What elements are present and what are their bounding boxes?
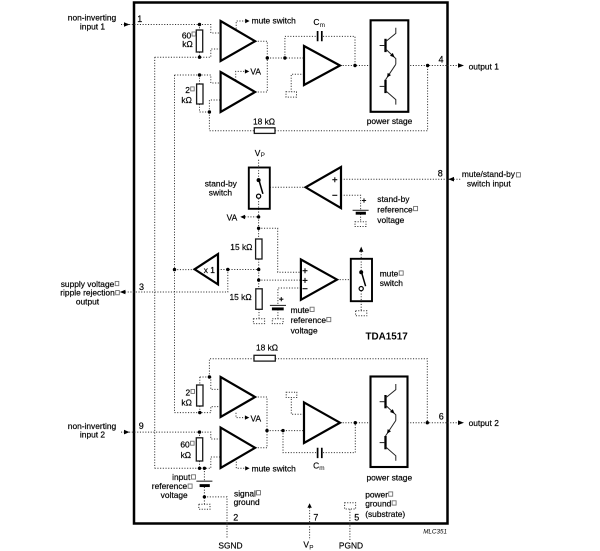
wire stand-by comparator output to switch <box>270 186 306 188</box>
arrow output1 pin4 <box>458 63 464 68</box>
svg-text:7: 7 <box>313 513 318 523</box>
wire U2 output <box>255 58 267 92</box>
glyph box after 2 R2 <box>191 87 195 91</box>
mute switch S2 internals <box>359 259 366 301</box>
op-amp U2 VA amp ch1 <box>221 72 256 112</box>
node VA rail <box>257 215 260 218</box>
svg-text:6: 6 <box>439 411 444 421</box>
wire left rail A <box>154 57 156 468</box>
wire Vp stem to stand-by switch <box>258 160 260 168</box>
wire 60k R1 top lead <box>199 25 201 31</box>
op-amp U4 stand-by comparator <box>306 167 341 208</box>
svg-text:5: 5 <box>354 512 359 522</box>
svg-text:kΩ: kΩ <box>181 450 191 460</box>
stand-by switch S1 box <box>249 168 270 209</box>
wire Cm C1 right branch <box>323 36 355 65</box>
wire signal ground pin2 <box>204 497 227 538</box>
node input reference top <box>203 467 206 470</box>
resistor R4 15k upper <box>256 239 262 259</box>
wire mute switch tick U8 <box>236 462 245 469</box>
svg-text:voltage: voltage <box>161 490 188 500</box>
svg-text:18 kΩ: 18 kΩ <box>256 343 278 353</box>
svg-text:switch: switch <box>380 278 404 288</box>
glyph box after mute switch S2 <box>399 271 403 275</box>
plus minus marks U4 <box>332 177 337 195</box>
svg-text:9: 9 <box>139 421 144 431</box>
svg-text:60: 60 <box>180 440 190 450</box>
op-amp U7 VA amp ch2 <box>221 377 256 417</box>
svg-text:18 kΩ: 18 kΩ <box>253 117 275 127</box>
node divider to comparator <box>257 278 260 281</box>
svg-text:kΩ: kΩ <box>181 398 191 408</box>
node Cm C1 tap <box>283 56 286 59</box>
wire power ground pin5 <box>349 509 351 540</box>
wire stand-by reference battery to ground <box>360 214 362 222</box>
svg-text:TDA1517: TDA1517 <box>366 331 409 342</box>
node x1 output on rail B <box>173 268 176 271</box>
node U3 output <box>353 64 356 67</box>
arrow pin9 <box>124 430 130 435</box>
svg-text:2: 2 <box>186 387 191 397</box>
wire node down to 18k R3 row <box>209 112 254 131</box>
wire divider node to mute comparator second input <box>259 279 301 281</box>
node U1 U2 outputs <box>266 56 269 59</box>
wire pin8 external <box>448 178 460 180</box>
wire 15k R5 bottom to ground <box>258 309 260 319</box>
wire x1 output to rail B <box>175 269 195 271</box>
ground below mute switch <box>356 311 367 316</box>
svg-text:output 1: output 1 <box>469 61 500 71</box>
glyph box after mute reference line2 <box>327 317 331 321</box>
svg-text:2: 2 <box>185 85 190 95</box>
svg-text:input 2: input 2 <box>80 430 105 440</box>
plus minus marks U6 <box>303 268 308 289</box>
wire output1 external <box>448 65 459 67</box>
arrow VA tick U2 <box>245 69 249 73</box>
svg-text:voltage: voltage <box>377 215 404 225</box>
wire VA arrow row <box>245 216 259 218</box>
wire mute comparator output to mute switch <box>337 279 351 281</box>
op-amp U1 mute amp ch1 <box>221 21 256 61</box>
wire Cm C2 left branch <box>283 431 316 453</box>
transistor Q2 PNP power stage 1 <box>380 64 396 104</box>
power stage 2 box <box>371 377 408 468</box>
capacitor C2 Cm ch2 <box>318 448 322 458</box>
svg-text:2: 2 <box>233 512 238 522</box>
svg-text:15 kΩ: 15 kΩ <box>230 242 252 252</box>
svg-text:1: 1 <box>137 14 142 24</box>
wire output2 row <box>340 422 448 424</box>
glyph box after mute/stand-by <box>516 173 520 177</box>
node pin9 junction <box>198 430 201 433</box>
svg-text:8: 8 <box>438 168 443 178</box>
svg-text:P: P <box>309 544 313 551</box>
wire Cm C2 right branch <box>323 423 355 453</box>
node below R7 <box>198 467 201 470</box>
wire 2k R8 top lead <box>199 377 201 385</box>
power ground pin5 pad <box>345 503 356 509</box>
wire 18k R6 to output2 node <box>275 359 427 423</box>
node below R1 <box>198 56 201 59</box>
wire left rail B from x1 buffer <box>174 75 176 413</box>
glyph box after supply voltage <box>115 281 119 285</box>
node Cm C2 tap <box>281 429 284 432</box>
node pin3 branch <box>226 268 229 271</box>
svg-text:output: output <box>76 297 100 307</box>
stand-by switch S1 internals <box>257 168 263 209</box>
svg-text:ground: ground <box>365 499 391 509</box>
glyph box after power <box>389 492 393 496</box>
arrow pin3 <box>120 290 126 295</box>
svg-text:4: 4 <box>438 55 443 65</box>
svg-text:(substrate): (substrate) <box>365 509 405 519</box>
capacitor C1 Cm ch1 <box>318 31 322 41</box>
wire rail B to U7 lower input <box>175 407 221 413</box>
wire divider mid node <box>258 259 260 289</box>
wire VA tick U7 <box>236 413 245 418</box>
node above R2 <box>198 73 201 76</box>
glyph box after stand-by reference <box>414 206 418 210</box>
svg-text:mute switch: mute switch <box>252 463 297 473</box>
op-amp U6 mute comparator <box>301 260 337 300</box>
wire node to mute comparator first input <box>259 228 301 272</box>
node mute comparator branch <box>257 227 260 230</box>
wire U8 output <box>255 431 267 448</box>
wire U7 output <box>255 397 267 431</box>
wire mute reference battery to ground <box>277 310 279 319</box>
op-amp U8 mute amp ch2 <box>221 428 256 468</box>
resistor R3 18k ch1 <box>254 128 275 134</box>
resistor R1 60k ch1 <box>196 30 202 52</box>
op-amp U3 power driver ch1 <box>304 46 340 85</box>
svg-text:power stage: power stage <box>367 116 413 126</box>
wire Cm C1 left branch <box>285 36 316 58</box>
svg-text:x 1: x 1 <box>204 265 216 275</box>
svg-text:15 kΩ: 15 kΩ <box>230 292 252 302</box>
node output2 feedback <box>426 421 429 424</box>
ground below mute reference <box>272 319 283 324</box>
wire rail B to U2 upper input <box>175 75 221 83</box>
glyph box after mute reference <box>310 307 314 311</box>
op-amp U9 power driver ch2 <box>304 402 340 443</box>
wire 2k R2 bottom lead <box>200 104 210 112</box>
svg-text:mute switch: mute switch <box>252 16 297 26</box>
svg-text:P: P <box>261 152 265 159</box>
svg-text:C: C <box>313 17 319 27</box>
power stage 1 box <box>371 20 409 112</box>
svg-text:VA: VA <box>227 212 238 222</box>
svg-text:power stage: power stage <box>366 472 412 482</box>
svg-text:switch input: switch input <box>467 179 511 189</box>
svg-text:stand-by: stand-by <box>377 194 410 204</box>
reference box U3 input <box>286 92 297 97</box>
resistor R8 2k ch2 <box>197 385 203 406</box>
wire 60k R7 top lead <box>199 432 201 438</box>
node U9 output <box>354 421 357 424</box>
arrow VA node <box>240 215 245 220</box>
wire mute switch arrow stem <box>360 252 362 259</box>
arrow mute switch tick U8 <box>245 466 249 470</box>
svg-text:kΩ: kΩ <box>181 95 191 105</box>
wire VA tick U2 <box>236 71 245 80</box>
svg-text:SGND: SGND <box>218 540 242 550</box>
mute switch S2 box <box>351 259 372 301</box>
node below R8 <box>198 411 201 414</box>
resistor R6 18k ch2 <box>254 355 275 361</box>
svg-text:kΩ: kΩ <box>182 39 192 49</box>
resistor R5 15k lower <box>256 289 262 310</box>
wire 60k R7 bottom lead <box>199 461 201 468</box>
svg-text:MLC351: MLC351 <box>423 529 447 536</box>
svg-text:reference: reference <box>291 315 327 325</box>
wire 60k R1 bottom lead <box>199 52 201 57</box>
wire 18k R6 corner from node <box>209 359 254 377</box>
ground below 15k R5 <box>253 319 264 324</box>
wire node row to U8 lower input <box>155 457 221 468</box>
transistor Q4 PNP power stage 2 <box>380 421 396 461</box>
svg-text:ground: ground <box>234 497 260 507</box>
glyph box after 60 R7 <box>191 441 195 445</box>
wire 2k R8 bottom lead <box>199 406 201 413</box>
battery input reference voltage <box>196 481 212 485</box>
wire mute comparator minus input to reference <box>278 288 301 305</box>
reference box U9 input <box>286 392 297 397</box>
op-amp U5 x1 buffer <box>195 254 218 284</box>
arrow pin1 <box>124 22 130 27</box>
arrow above mute switch S2 <box>359 247 363 252</box>
svg-text:voltage: voltage <box>291 326 318 336</box>
arrow mute switch tick U1 <box>245 19 249 23</box>
battery stand-by reference voltage <box>353 198 369 213</box>
battery mute reference voltage <box>270 297 286 309</box>
wire stand-by switch to VA node and 15k <box>258 209 260 239</box>
wire pin1 input to node <box>121 25 221 34</box>
svg-text:m: m <box>320 22 325 29</box>
glyph box after signal <box>257 491 261 495</box>
arrow pin8 <box>448 177 454 182</box>
svg-text:VA: VA <box>250 67 261 77</box>
glyph box after 2 R8 <box>191 389 195 393</box>
wire summing row to U9 input <box>267 430 304 432</box>
node U7 U8 outputs <box>265 429 268 432</box>
node 18k R6 tap <box>208 375 211 378</box>
wire Vp pin7 <box>309 508 311 541</box>
wire mute switch tick U1 <box>236 21 245 29</box>
wire mute switch to ground <box>360 301 362 311</box>
wire 18k R3 to output1 node <box>275 66 428 131</box>
svg-text:reference: reference <box>377 204 413 214</box>
wire summing row to U3 input <box>267 57 304 59</box>
glyph box after ripple rejection <box>116 291 120 295</box>
node input reference bottom <box>203 495 206 498</box>
resistor R7 60k ch2 <box>196 438 202 461</box>
svg-text:PGND: PGND <box>339 540 363 550</box>
wire input reference battery to ground <box>203 487 205 504</box>
wire node row to U7 upper input <box>200 377 221 389</box>
node below R2 <box>208 110 211 113</box>
wire U3 lower input to reference box <box>291 74 304 92</box>
node pin1 junction <box>198 23 201 26</box>
svg-text:3: 3 <box>139 282 144 292</box>
glyph box after 60 R1 <box>192 32 196 36</box>
svg-text:VA: VA <box>251 413 262 423</box>
glyph box after input <box>192 475 196 479</box>
svg-text:C: C <box>313 460 319 470</box>
transistor Q1 NPN power stage 1 <box>380 28 396 65</box>
node divider mid <box>257 268 260 271</box>
arrow output2 pin6 <box>458 420 464 425</box>
IC boundary box <box>134 3 448 524</box>
wire stand-by comparator minus input <box>341 195 361 210</box>
wire node row to U1 inverting input <box>155 49 221 57</box>
wire pin8 row <box>341 178 448 180</box>
wire divider node to x1 input <box>218 269 259 271</box>
glyph box after ground <box>392 501 396 505</box>
transistor Q3 NPN power stage 2 <box>380 384 396 421</box>
wire pin9 input to node <box>121 432 221 439</box>
wire pin3 branch <box>121 270 228 293</box>
wire U1 output <box>255 41 267 58</box>
wire output1 row <box>340 65 448 67</box>
arrow Vp pin7 <box>307 503 311 508</box>
wire input reference battery top lead <box>203 468 205 480</box>
ground below stand-by reference <box>355 222 366 227</box>
wire 2k R2 top lead <box>199 75 201 84</box>
svg-text:mute: mute <box>291 305 310 315</box>
ground below input reference <box>199 504 210 509</box>
node output1 feedback <box>426 64 429 67</box>
arrow VA tick U7 <box>245 415 249 419</box>
wire node to U2 lower input <box>209 100 220 112</box>
svg-text:output 2: output 2 <box>469 418 500 428</box>
svg-text:input 1: input 1 <box>80 21 105 31</box>
wire output2 external <box>448 422 459 424</box>
svg-text:m: m <box>319 465 324 472</box>
glyph box after input reference <box>188 484 192 488</box>
resistor R2 2k ch1 <box>197 84 203 104</box>
svg-text:switch: switch <box>209 188 233 198</box>
wire U9 upper input to reference box <box>291 398 304 415</box>
